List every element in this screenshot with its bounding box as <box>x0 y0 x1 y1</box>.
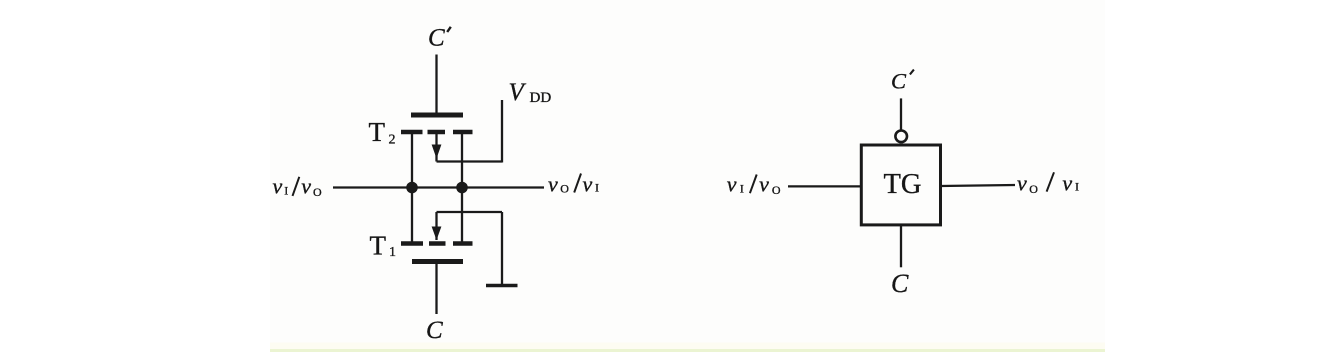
transistor T1 gate bar <box>412 259 463 264</box>
svg-text:2: 2 <box>389 133 396 148</box>
label vO/vI (left circuit output) <box>548 172 599 197</box>
TG box <box>861 145 940 225</box>
label VDD <box>509 79 552 106</box>
wire T2 source to node B <box>461 133 463 242</box>
prime of C' (left circuit) <box>447 27 451 32</box>
svg-text:C: C <box>428 25 445 52</box>
svg-text:I: I <box>1075 180 1079 194</box>
svg-text:O: O <box>560 182 569 196</box>
label T1 <box>370 231 397 261</box>
T1 body arrow to ground <box>432 212 502 284</box>
svg-text:v: v <box>301 174 311 199</box>
label C (TG symbol) <box>891 269 909 298</box>
svg-text:v: v <box>273 174 283 199</box>
svg-text:v: v <box>727 172 737 197</box>
wire input to left circuit <box>333 186 544 188</box>
T2 body arrow to VDD <box>432 100 502 163</box>
svg-text:T: T <box>370 231 387 261</box>
svg-text:C: C <box>891 69 907 94</box>
svg-text:O: O <box>1029 182 1038 196</box>
wire TG C terminal <box>900 225 902 267</box>
svg-text:C: C <box>426 317 443 344</box>
label vI/vO (left circuit input) <box>273 174 323 200</box>
transistor T2 gate bar <box>411 113 463 118</box>
slash of vO/vI (TG output) <box>1047 172 1054 191</box>
scan page area <box>270 0 1105 352</box>
wire TG output <box>941 185 1015 186</box>
scan bottom green strip <box>270 349 1105 352</box>
svg-text:v: v <box>1062 171 1072 196</box>
transistor T2 channel middle segment <box>428 130 446 135</box>
label C (left circuit) <box>426 317 443 344</box>
svg-text:1: 1 <box>389 245 396 260</box>
svg-text:TG: TG <box>884 169 922 200</box>
inversion bubble <box>895 131 907 143</box>
svg-text:v: v <box>583 172 593 197</box>
transistor T1 channel right segment <box>453 241 473 246</box>
svg-text:v: v <box>1017 171 1027 196</box>
transistor T1 channel middle segment <box>429 241 446 246</box>
transistor T2 channel right segment <box>453 130 473 135</box>
transistor T2 channel left segment <box>401 130 423 135</box>
svg-text:I: I <box>284 184 288 198</box>
node A junction dot <box>406 182 418 194</box>
wire TG input <box>788 185 861 187</box>
svg-text:O: O <box>772 183 781 197</box>
scan bottom cream strip <box>270 343 1105 350</box>
wire gate of T2 from C' <box>435 55 437 113</box>
transistor T1 channel left segment <box>401 241 423 246</box>
label vI/vO (TG input) <box>727 172 781 198</box>
slash of vI/vO (TG input) <box>750 175 757 194</box>
node B junction dot <box>456 182 468 194</box>
svg-text:v: v <box>548 172 558 197</box>
label TG <box>884 169 922 200</box>
slash of vO/vI (left circuit output) <box>574 174 581 193</box>
wire C' to bubble <box>900 98 902 130</box>
label C' (left circuit) <box>428 25 445 52</box>
label vO/vI (TG output) <box>1017 171 1079 197</box>
prime of C' (TG symbol) <box>910 70 914 75</box>
ground <box>486 284 518 287</box>
label C' (TG symbol) <box>891 69 907 94</box>
slash of vI/vO (left circuit input) <box>293 177 300 196</box>
label T2 <box>369 117 396 148</box>
svg-text:I: I <box>740 181 744 195</box>
svg-text:I: I <box>595 181 599 195</box>
svg-text:O: O <box>313 185 322 199</box>
wire gate of T1 to C <box>435 264 437 314</box>
wire T2 drain to node A <box>411 133 413 242</box>
svg-text:DD: DD <box>530 90 552 106</box>
svg-text:C: C <box>891 269 909 298</box>
svg-text:v: v <box>759 172 769 197</box>
svg-text:T: T <box>369 117 386 147</box>
